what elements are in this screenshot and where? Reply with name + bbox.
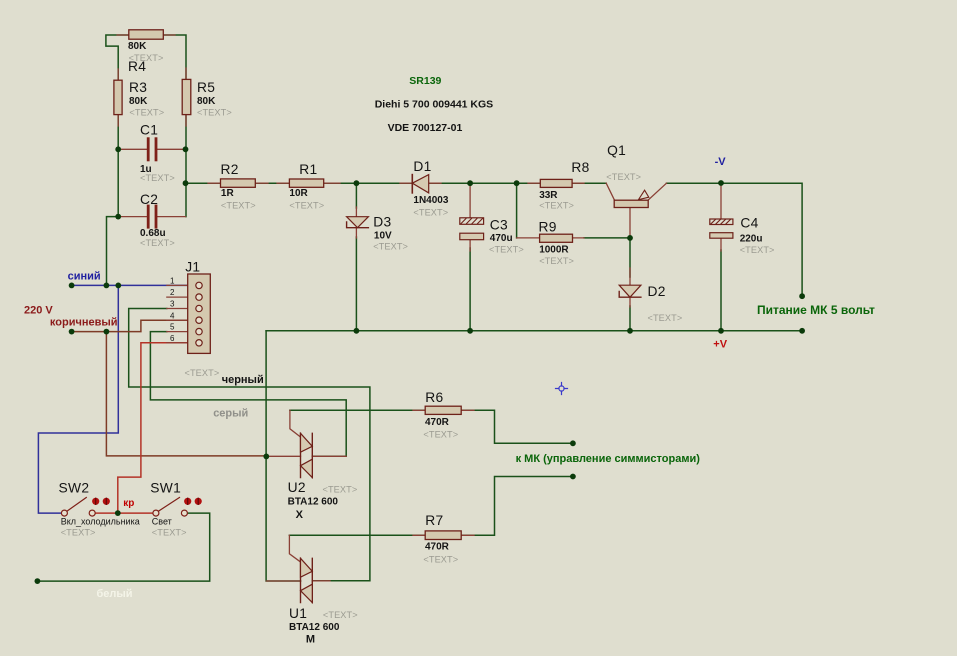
svg-text:D1: D1 bbox=[413, 159, 431, 174]
svg-text:4: 4 bbox=[170, 311, 175, 320]
junction -V node bbox=[718, 180, 724, 186]
svg-text:5: 5 bbox=[170, 323, 175, 332]
svg-text:<TEXT>: <TEXT> bbox=[197, 107, 232, 117]
wire R3 bottom through C1,C2 left column bbox=[117, 115, 119, 217]
note Diehi bbox=[375, 99, 494, 111]
wire C3 bottom to +V rail bbox=[469, 248, 471, 331]
junction R8/R9 node bbox=[514, 180, 520, 186]
svg-text:<TEXT>: <TEXT> bbox=[423, 555, 458, 565]
wire net red J1 pin6 to switches node bbox=[96, 343, 193, 513]
svg-text:<TEXT>: <TEXT> bbox=[740, 245, 775, 255]
svg-text:синий: синий bbox=[68, 271, 101, 283]
junction siniy-SW2 bbox=[115, 283, 121, 289]
terminal dot bely bbox=[35, 578, 41, 584]
net label sery bbox=[213, 408, 248, 420]
label C1 bbox=[140, 123, 175, 184]
wire D3 top lead bbox=[355, 183, 357, 208]
svg-text:R5: R5 bbox=[197, 80, 215, 95]
svg-text:SW1: SW1 bbox=[150, 481, 181, 496]
wire D3 bottom to +V rail bbox=[355, 237, 357, 331]
terminal dot +V rail end bbox=[799, 328, 805, 334]
svg-text:J1: J1 bbox=[185, 260, 200, 275]
svg-text:<TEXT>: <TEXT> bbox=[152, 528, 187, 538]
svg-text:<TEXT>: <TEXT> bbox=[140, 238, 175, 248]
svg-text:<TEXT>: <TEXT> bbox=[61, 528, 96, 538]
svg-text:<TEXT>: <TEXT> bbox=[648, 313, 683, 323]
svg-text:<TEXT>: <TEXT> bbox=[489, 245, 524, 255]
svg-text:1N4003: 1N4003 bbox=[413, 195, 448, 206]
svg-text:U2: U2 bbox=[288, 480, 306, 495]
svg-text:R6: R6 bbox=[425, 390, 443, 405]
label SW1 bbox=[150, 481, 186, 538]
net label 220V bbox=[24, 304, 53, 316]
svg-text:<TEXT>: <TEXT> bbox=[423, 430, 458, 440]
wire net bely SW1 right to bottom left terminal bbox=[37, 513, 209, 581]
label D1 bbox=[413, 159, 448, 218]
wire R8 to Q1 collector bbox=[572, 182, 606, 184]
terminal dot siniy bbox=[69, 283, 75, 289]
svg-text:SR139: SR139 bbox=[409, 75, 441, 87]
label R5 bbox=[197, 80, 232, 117]
svg-text:10V: 10V bbox=[374, 230, 392, 241]
svg-text:470R: 470R bbox=[425, 417, 450, 428]
label Q1 bbox=[606, 143, 641, 182]
svg-text:R9: R9 bbox=[539, 220, 557, 235]
svg-text:80K: 80K bbox=[128, 41, 147, 52]
junction D3 top bbox=[354, 180, 360, 186]
label C3 bbox=[489, 217, 524, 254]
triac U1 bbox=[266, 535, 330, 602]
resistor R9 bbox=[517, 234, 584, 242]
svg-text:C1: C1 bbox=[140, 123, 158, 138]
svg-text:<TEXT>: <TEXT> bbox=[140, 173, 175, 183]
junction korichnevy bbox=[104, 329, 110, 335]
label R8 bbox=[539, 160, 589, 210]
resistor R6 bbox=[413, 406, 474, 414]
triac U2 bbox=[266, 410, 346, 477]
svg-text:Вкл_холодильника: Вкл_холодильника bbox=[61, 517, 140, 527]
junction C1 left bbox=[115, 146, 121, 152]
wire Q1 base node to D2 bbox=[584, 238, 630, 277]
label R9 bbox=[539, 220, 575, 267]
svg-text:<TEXT>: <TEXT> bbox=[129, 107, 164, 117]
label SW2 bbox=[59, 481, 140, 538]
svg-text:<TEXT>: <TEXT> bbox=[289, 200, 324, 210]
wire R7 to U1 gate bbox=[289, 534, 425, 536]
net label cherny bbox=[222, 374, 264, 386]
net label siniy bbox=[68, 271, 101, 283]
capacitor C1 bbox=[118, 137, 185, 161]
wire C4 bottom to +V rail bbox=[720, 250, 722, 331]
svg-text:D3: D3 bbox=[373, 215, 391, 230]
svg-text:коричневый: коричневый bbox=[50, 317, 118, 329]
transistor Q1 bbox=[606, 183, 666, 238]
svg-text:Q1: Q1 bbox=[607, 143, 626, 158]
capacitor C4 bbox=[710, 183, 733, 251]
wire R7 right to MK node bbox=[461, 477, 573, 536]
resistor R8 bbox=[528, 179, 584, 187]
junction kr node bbox=[115, 510, 121, 516]
wire R4 left jog to R3 top bbox=[106, 35, 129, 80]
junction U2 MT node bbox=[263, 454, 269, 460]
wire node to R9 branch vertical bbox=[516, 183, 518, 238]
blue origin marker bbox=[556, 383, 568, 395]
resistor R1 bbox=[277, 179, 340, 187]
resistor R7 bbox=[413, 531, 474, 540]
label R4 bbox=[128, 41, 163, 74]
label D3 bbox=[373, 215, 408, 252]
svg-text:3: 3 bbox=[170, 300, 175, 309]
svg-text:X: X bbox=[296, 509, 304, 521]
label R3 bbox=[129, 80, 164, 117]
svg-text:BTA12 600: BTA12 600 bbox=[289, 622, 340, 633]
wire rail corner down to U2 and U1 left terminals bbox=[266, 331, 300, 581]
junction C4 rail bbox=[718, 328, 724, 334]
svg-text:C2: C2 bbox=[140, 192, 158, 207]
junction D2 rail bbox=[627, 328, 633, 334]
wire D1 to R8 with taps bbox=[429, 182, 540, 184]
svg-text:<TEXT>: <TEXT> bbox=[323, 610, 358, 620]
svg-text:к МК (управление симмисторами): к МК (управление симмисторами) bbox=[516, 453, 701, 465]
net label -V bbox=[715, 156, 727, 168]
svg-text:<TEXT>: <TEXT> bbox=[373, 242, 408, 252]
svg-text:черный: черный bbox=[222, 374, 264, 386]
terminal dot MK1 bbox=[570, 440, 576, 446]
junction R2 node bbox=[183, 180, 189, 186]
wire R5 bottom through C1 right to C2 right column bbox=[185, 115, 187, 217]
svg-text:BTA12 600: BTA12 600 bbox=[288, 496, 339, 507]
junction C2 left bbox=[115, 214, 121, 220]
svg-text:470R: 470R bbox=[425, 542, 450, 553]
svg-text:Свет: Свет bbox=[152, 517, 172, 527]
svg-text:R2: R2 bbox=[221, 162, 239, 177]
switch SW2 bbox=[61, 498, 110, 517]
svg-text:U1: U1 bbox=[289, 606, 307, 621]
label R6 bbox=[423, 390, 458, 440]
svg-text:1000R: 1000R bbox=[539, 245, 569, 256]
svg-text:кр: кр bbox=[123, 498, 134, 509]
wire R1 to D1 bbox=[324, 182, 412, 184]
svg-text:1R: 1R bbox=[221, 188, 235, 199]
junction C1 right bbox=[183, 146, 189, 152]
svg-text:белый: белый bbox=[97, 588, 133, 600]
wire Q1 emitter to -V corner down to node bbox=[667, 183, 803, 296]
svg-text:<TEXT>: <TEXT> bbox=[606, 172, 641, 182]
svg-text:2: 2 bbox=[170, 288, 175, 297]
label R1 bbox=[289, 162, 324, 210]
junction C3 rail bbox=[467, 328, 473, 334]
svg-text:М: М bbox=[306, 634, 315, 646]
capacitor C3 bbox=[460, 183, 484, 251]
label D2 bbox=[648, 284, 683, 323]
svg-text:10R: 10R bbox=[289, 188, 308, 199]
label U1 bbox=[289, 606, 358, 645]
note VDE bbox=[388, 122, 463, 134]
note pitanie MK bbox=[757, 303, 875, 317]
svg-text:<TEXT>: <TEXT> bbox=[323, 485, 358, 495]
zener diode D2 bbox=[619, 268, 641, 307]
wire net sery J1 pin5 to U2 right terminal bbox=[150, 332, 346, 457]
note SR139 bbox=[409, 75, 441, 87]
junction Q1 base node bbox=[627, 235, 633, 241]
label J1 bbox=[170, 260, 219, 379]
wire +V rail bbox=[266, 330, 802, 332]
svg-text:220 V: 220 V bbox=[24, 304, 53, 316]
wire R6 to U2 gate bbox=[290, 409, 426, 411]
label R2 bbox=[221, 162, 256, 210]
resistor R3 bbox=[114, 69, 122, 126]
svg-text:6: 6 bbox=[170, 334, 175, 343]
svg-text:серый: серый bbox=[213, 408, 248, 420]
resistor R2 bbox=[208, 179, 268, 187]
svg-text:D2: D2 bbox=[648, 284, 666, 299]
resistor R4 bbox=[117, 30, 175, 39]
wire net cherny J1 pin3 to U1 right terminal bbox=[129, 309, 370, 581]
net label kr bbox=[123, 498, 134, 509]
wire green C2 left to siniy junction bbox=[107, 217, 119, 286]
svg-text:SW2: SW2 bbox=[59, 481, 90, 496]
label C4 bbox=[740, 216, 775, 255]
svg-text:<TEXT>: <TEXT> bbox=[539, 256, 574, 266]
diode D1 bbox=[400, 175, 441, 193]
svg-text:R8: R8 bbox=[571, 160, 589, 175]
svg-text:<TEXT>: <TEXT> bbox=[413, 208, 448, 218]
zener diode D3 bbox=[347, 207, 369, 238]
svg-text:Питание МК 5 вольт: Питание МК 5 вольт bbox=[757, 303, 875, 317]
svg-text:VDE 700127-01: VDE 700127-01 bbox=[388, 122, 463, 134]
wire net siniy J1 pin1 to SW2 bbox=[38, 285, 192, 513]
label C2 bbox=[140, 192, 175, 248]
wire R6 right to MK node bbox=[461, 410, 573, 443]
junction C3 top bbox=[467, 180, 473, 186]
svg-text:C4: C4 bbox=[740, 216, 758, 231]
svg-text:470u: 470u bbox=[490, 233, 513, 244]
switch SW1 bbox=[153, 498, 202, 517]
label U2 bbox=[288, 480, 358, 521]
resistor R5 bbox=[182, 68, 191, 126]
svg-text:<TEXT>: <TEXT> bbox=[539, 200, 574, 210]
svg-text:<TEXT>: <TEXT> bbox=[185, 368, 220, 378]
svg-text:R1: R1 bbox=[299, 162, 317, 177]
net label korichnevy bbox=[50, 317, 118, 329]
net label +V bbox=[713, 339, 727, 351]
svg-text:+V: +V bbox=[713, 339, 727, 351]
svg-text:R3: R3 bbox=[129, 80, 147, 95]
svg-text:80K: 80K bbox=[197, 96, 216, 107]
svg-text:<TEXT>: <TEXT> bbox=[221, 200, 256, 210]
svg-text:R7: R7 bbox=[425, 513, 443, 528]
connector J1 bbox=[167, 274, 211, 353]
note k MK bbox=[516, 453, 701, 465]
net label bely bbox=[97, 588, 133, 600]
wire node to R2 left bbox=[186, 182, 221, 184]
wire R4 right to R5 top bbox=[163, 35, 186, 79]
wire net korichnevy 220V to J1 pin4 and to U2/U1 bbox=[72, 320, 267, 456]
terminal dot 220V bbox=[69, 329, 75, 335]
svg-text:R4: R4 bbox=[128, 59, 146, 74]
label R7 bbox=[423, 513, 458, 565]
junction siniy-C2 bbox=[104, 283, 110, 289]
svg-text:C3: C3 bbox=[490, 217, 508, 232]
junction D3 rail bbox=[354, 328, 360, 334]
svg-text:220u: 220u bbox=[740, 234, 763, 245]
svg-text:1: 1 bbox=[170, 277, 175, 286]
svg-text:Diehi 5 700 009441 KGS: Diehi 5 700 009441 KGS bbox=[375, 99, 494, 111]
capacitor C2 bbox=[118, 205, 185, 229]
wire R2 to R1 bbox=[255, 182, 289, 184]
terminal dot pitanie MK bbox=[799, 293, 805, 299]
wire D2 bottom to +V rail bbox=[629, 306, 631, 331]
svg-text:80K: 80K bbox=[129, 96, 148, 107]
svg-text:-V: -V bbox=[715, 156, 727, 168]
terminal dot MK2 bbox=[570, 474, 576, 480]
